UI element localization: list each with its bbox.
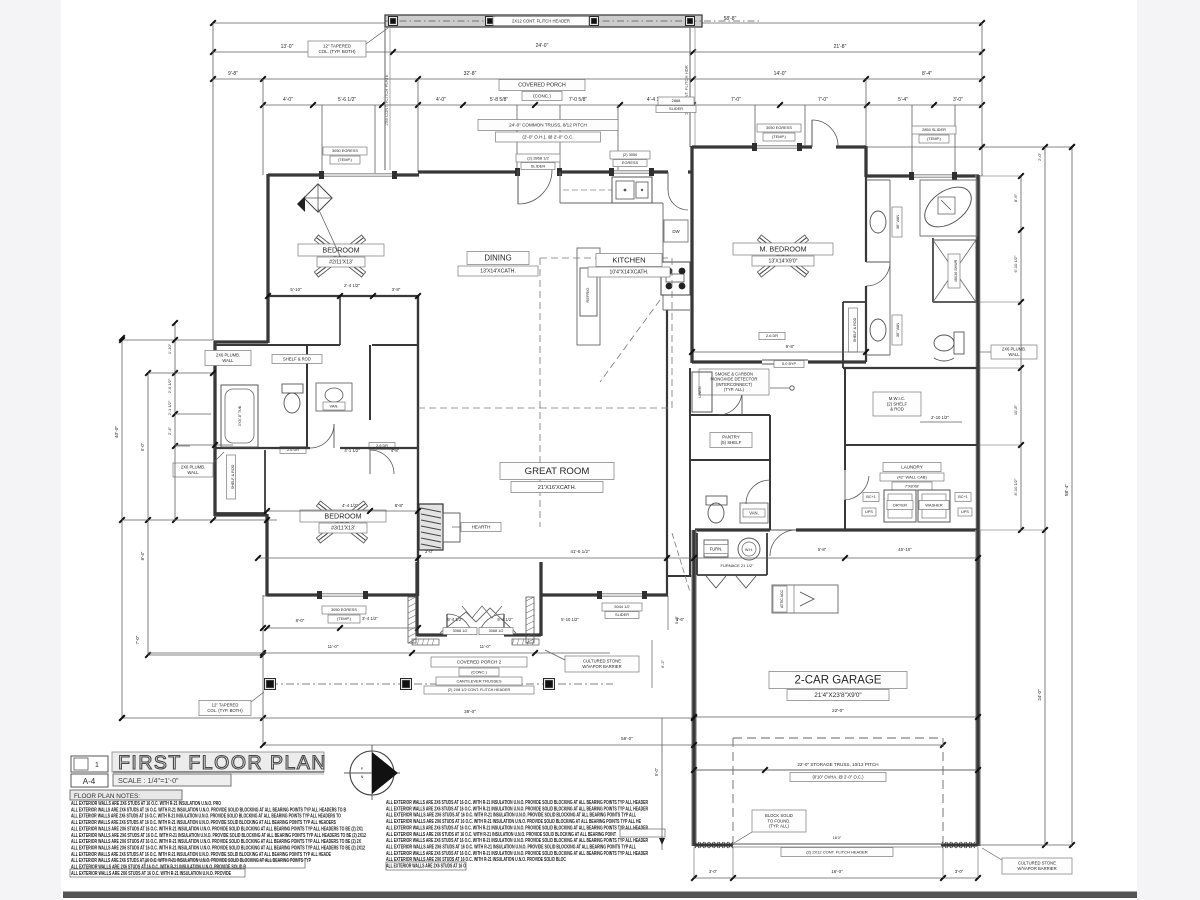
svg-text:8'-0": 8'-0" — [296, 618, 305, 623]
svg-text:39'-0": 39'-0" — [464, 709, 476, 714]
wall garage bottom right — [941, 844, 978, 847]
svg-text:ALL EXTERIOR WALLS ARE 2X6 STU: ALL EXTERIOR WALLS ARE 2X6 STUDS AT 16 O… — [386, 806, 648, 812]
powder vanity — [740, 503, 768, 523]
mbath toilet — [954, 332, 964, 354]
wall bath bottom / mwic top — [843, 367, 978, 369]
storage truss line — [694, 769, 978, 771]
dim ext x418 top — [417, 79, 419, 172]
svg-text:ALL EXTERIOR WALLS ARE 2X6 STU: ALL EXTERIOR WALLS ARE 2X6 STUDS AT 16 O — [386, 864, 466, 870]
laundry door swing — [844, 470, 846, 500]
svg-text:WALL: WALL — [187, 470, 199, 475]
pantry door swing — [718, 391, 742, 415]
bed3 closet label — [227, 455, 236, 499]
svg-text:8'-4": 8'-4" — [140, 551, 145, 560]
plumb wall label bath — [205, 351, 251, 366]
wall right exterior underlay — [976, 175, 981, 531]
bed3 door label — [369, 443, 395, 450]
front door leaf left — [446, 614, 448, 635]
porch2 label stack — [431, 657, 527, 667]
dim line top row4 — [263, 104, 982, 106]
wall garage left — [692, 530, 695, 846]
svg-text:4'-4 1/2": 4'-4 1/2" — [342, 503, 359, 508]
window mbath top — [912, 174, 955, 176]
wall garage right underlay — [975, 530, 981, 846]
dim 7ft bottom — [141, 596, 143, 718]
bed2 bottom dims — [268, 295, 418, 297]
porch left edge — [384, 28, 386, 170]
svg-text:5'-10": 5'-10" — [290, 287, 302, 292]
plumb wall label left — [173, 463, 213, 477]
svg-text:3068 1/2: 3068 1/2 — [453, 629, 468, 633]
svg-text:21'-8": 21'-8" — [834, 44, 847, 50]
attic access stair — [772, 585, 838, 613]
wall hall east — [689, 368, 691, 577]
svg-text:5'-4 1/2": 5'-4 1/2" — [497, 617, 513, 622]
mbath sink2 — [870, 319, 886, 341]
hall dashed diag — [672, 533, 690, 592]
wall kitchen top seg4 — [688, 170, 693, 173]
bed3 door swing — [370, 450, 394, 474]
svg-text:A-4: A-4 — [83, 777, 96, 786]
sheet number box — [71, 774, 108, 787]
wall mbed bottom seg1 — [692, 360, 762, 363]
svg-text:2'-0 1/2": 2'-0 1/2" — [167, 378, 172, 393]
dim ext vertical left of porch — [212, 23, 214, 340]
svg-text:CANTILEVER TRUSSES: CANTILEVER TRUSSES — [456, 678, 501, 683]
wall closet strip bottom2 — [372, 344, 418, 346]
left horiz y445 — [175, 444, 233, 446]
wall dining top seg1 — [418, 170, 518, 173]
cantilever zigzag — [462, 606, 502, 618]
wall bed3 closet bottom — [215, 512, 265, 514]
svg-text:ALL EXTERIOR WALLS ARE 2X6 STU: ALL EXTERIOR WALLS ARE 2X6 STUDS AT 16 O… — [71, 845, 365, 851]
svg-text:6'-2": 6'-2" — [660, 659, 665, 668]
svg-text:(CONC.): (CONC.) — [471, 669, 487, 674]
bedroom2 label — [298, 244, 384, 256]
mbath shower — [933, 240, 976, 302]
porch right edge — [689, 28, 691, 147]
wall bath bump top — [214, 340, 268, 343]
svg-text:11'-0": 11'-0" — [480, 644, 491, 649]
right dim x1021 — [1020, 176, 1022, 530]
svg-text:SCALE : 1/4"=1'-0": SCALE : 1/4"=1'-0" — [118, 776, 179, 785]
svg-text:ALL EXTERIOR WALLS ARE 2X6 STU: ALL EXTERIOR WALLS ARE 2X6 STUDS AT 16 O… — [71, 852, 331, 858]
kitchen porch door swing — [668, 190, 688, 210]
svg-text:ALL EXTERIOR WALLS ARE 2X6 STU: ALL EXTERIOR WALLS ARE 2X6 STUDS AT 16 O… — [71, 839, 361, 845]
smoke detector label — [699, 369, 769, 395]
porch post top-right — [686, 17, 695, 26]
svg-text:SHELF & ROD: SHELF & ROD — [231, 464, 235, 489]
wall mbath top seg2 — [955, 174, 979, 177]
kitchen counter left edge — [559, 172, 561, 203]
bedroom3 label — [300, 510, 386, 522]
wall mbed left — [690, 146, 693, 363]
wall bath bottom2 — [340, 447, 418, 449]
svg-text:ALL EXTERIOR WALLS ARE 2X6 STU: ALL EXTERIOR WALLS ARE 2X6 STUDS AT 16 O… — [71, 826, 363, 832]
wall laundry left2 — [844, 500, 846, 530]
hall door label — [759, 333, 785, 340]
wall porch recess right stub — [539, 562, 542, 636]
svg-text:BEDROOM: BEDROOM — [322, 245, 359, 254]
right gray margin — [1137, 0, 1200, 900]
hall bath vanity — [316, 383, 352, 411]
svg-text:ALL EXTERIOR WALLS ARE 2X6 STU: ALL EXTERIOR WALLS ARE 2X6 STUDS AT 16 O… — [71, 807, 346, 813]
common truss note2 — [496, 132, 601, 142]
svg-text:2868: 2868 — [672, 98, 681, 103]
wall mbath top seg1 — [866, 174, 912, 177]
dim ext x866 top — [865, 79, 867, 176]
dim ext x982 right — [981, 23, 983, 176]
garage header label — [781, 848, 893, 857]
mbed porch door swing — [811, 120, 813, 147]
wall laundry top — [845, 444, 978, 446]
dim ext x955 — [954, 105, 956, 174]
wall bedroom2 left — [266, 174, 269, 343]
dim ext x263 top — [262, 79, 264, 175]
svg-text:36" VAN: 36" VAN — [896, 323, 900, 337]
dim 40ft — [121, 338, 123, 718]
svg-text:7'X8'X8': 7'X8'X8' — [905, 483, 920, 488]
svg-text:(2) 2X8 1/2 CONT. FLITCH HEADE: (2) 2X8 1/2 CONT. FLITCH HEADER — [448, 688, 511, 692]
svg-text:ALL EXTERIOR WALLS ARE 2X6 STU: ALL EXTERIOR WALLS ARE 2X6 STUDS AT 16 O… — [386, 851, 648, 857]
interior long dim — [258, 557, 978, 559]
svg-text:COL. (TYP. BOTH): COL. (TYP. BOTH) — [207, 708, 243, 713]
svg-text:5'-0": 5'-0" — [654, 767, 659, 776]
svg-text:ALL EXTERIOR WALLS ARE 2X6 STU: ALL EXTERIOR WALLS ARE 2X6 STUDS AT 16 O… — [71, 858, 311, 864]
wall greatroom east — [666, 310, 668, 596]
svg-text:3'-8": 3'-8" — [392, 287, 401, 292]
covered porch label — [499, 80, 585, 91]
cultured stone label — [565, 656, 639, 672]
porch header label — [493, 17, 589, 26]
kitchen dishwasher — [664, 220, 688, 242]
right horiz y845 — [978, 844, 1072, 846]
svg-text:5'-4 1/2": 5'-4 1/2" — [447, 617, 463, 622]
left horiz y520 — [122, 519, 277, 521]
svg-text:FURN.: FURN. — [710, 546, 723, 551]
porch2 postline — [270, 683, 613, 685]
svg-text:3050 EGRESS: 3050 EGRESS — [331, 607, 357, 612]
svg-text:11'-0": 11'-0" — [328, 644, 339, 649]
wall bed2 bottom — [268, 295, 418, 297]
wall mcloset left — [842, 302, 844, 368]
porch2 post right — [544, 679, 555, 690]
dining label — [467, 252, 529, 265]
window bedroom3 south — [320, 593, 366, 595]
svg-text:ALL EXTERIOR WALLS ARE 2X6 STU: ALL EXTERIOR WALLS ARE 2X6 STUDS AT 16 O… — [71, 820, 336, 826]
garage door header — [733, 843, 941, 845]
tapered column label top — [308, 41, 366, 57]
wall garage right — [976, 530, 979, 846]
svg-text:FIRST FLOOR PLAN: FIRST FLOOR PLAN — [118, 752, 327, 774]
long dim 56 — [263, 744, 943, 746]
svg-text:6'-10 1/2": 6'-10 1/2" — [1013, 255, 1018, 272]
dim ext x755 — [754, 105, 756, 145]
svg-text:ALL EXTERIOR WALLS ARE 2X6 STU: ALL EXTERIOR WALLS ARE 2X6 STUDS AT 16 O… — [386, 832, 616, 838]
svg-text:SHELF & ROD: SHELF & ROD — [853, 317, 857, 342]
wall bath top — [215, 344, 268, 346]
plumb wall label right — [991, 345, 1037, 359]
garage dim 22 — [694, 716, 978, 718]
ceiling fan bedroom2 — [340, 256, 364, 274]
dim x175 — [174, 323, 176, 520]
svg-text:DRYER: DRYER — [893, 502, 907, 507]
svg-text:KITCHEN: KITCHEN — [612, 255, 645, 264]
svg-text:1: 1 — [95, 762, 99, 769]
svg-text:2X12 CONT. FLITCH HEADER: 2X12 CONT. FLITCH HEADER — [512, 18, 570, 23]
wall greatroom west — [417, 296, 419, 596]
svg-text:4'-0": 4'-0" — [436, 97, 446, 103]
scale box — [113, 774, 231, 786]
kitchen range — [661, 262, 690, 295]
svg-text:#3/11'X13': #3/11'X13' — [331, 526, 355, 532]
wall south greatroom seg — [541, 593, 600, 596]
svg-text:(TYP. ALL): (TYP. ALL) — [769, 824, 790, 829]
right horiz y368 — [978, 367, 1021, 369]
utility doors — [706, 576, 726, 588]
cathedral dashed diag — [600, 300, 660, 382]
dim line top row1 — [213, 22, 982, 24]
mwic label — [873, 392, 921, 416]
common truss note — [478, 120, 618, 131]
svg-text:ALL EXTERIOR WALLS ARE 2X6 STU: ALL EXTERIOR WALLS ARE 2X6 STUDS AT 16 O… — [71, 814, 341, 820]
right ext y147 — [866, 146, 1072, 148]
fireplace — [419, 504, 443, 550]
svg-text:(TEMP.): (TEMP.) — [337, 616, 352, 621]
cathedral dashed rect — [540, 257, 672, 259]
svg-text:58'-4": 58'-4" — [1064, 484, 1070, 497]
svg-text:24'-0": 24'-0" — [536, 43, 549, 49]
porch2 stone band bottomL — [412, 639, 439, 645]
block solid label — [752, 810, 806, 832]
right dim x1045 — [1044, 147, 1046, 845]
svg-text:W/VAPOR BARRIER: W/VAPOR BARRIER — [582, 664, 621, 669]
bath door swing — [310, 424, 334, 448]
svg-text:3'-0": 3'-0" — [425, 549, 434, 554]
mbath sink1 — [870, 211, 886, 233]
wall laundry left — [844, 445, 846, 470]
svg-text:2-6 DR: 2-6 DR — [766, 334, 778, 338]
wall south seg3 — [645, 593, 668, 596]
window mbed top — [755, 145, 800, 147]
tapered col label bottom — [199, 701, 251, 716]
hearth label — [461, 523, 501, 532]
dim ext x912 — [911, 105, 913, 174]
right horiz y530 — [978, 529, 1045, 531]
porch2 door labels — [443, 628, 477, 635]
laundry side box right — [955, 493, 971, 502]
svg-text:LAUNDRY: LAUNDRY — [901, 464, 922, 469]
mbath window labels — [912, 126, 956, 134]
svg-text:W.H.: W.H. — [745, 548, 753, 552]
bed3 bottom dim — [267, 627, 418, 629]
mbath tub — [918, 179, 979, 235]
svg-text:32'-8": 32'-8" — [464, 71, 477, 77]
svg-text:4'-8": 4'-8" — [391, 448, 400, 453]
svg-text:21'4"X23'8"X9'0": 21'4"X23'8"X9'0" — [814, 692, 861, 699]
closet divider bed2 — [339, 296, 341, 345]
wall bed3 closet right — [264, 450, 266, 515]
svg-text:COL. (TYP. BOTH): COL. (TYP. BOTH) — [319, 49, 357, 54]
mbath van label2 — [892, 315, 902, 345]
svg-text:7'-0": 7'-0" — [135, 635, 140, 644]
wall porch recess back — [417, 633, 447, 636]
north arrow — [350, 751, 394, 795]
porch2 stone left — [408, 597, 416, 643]
svg-text:5-0 BYP: 5-0 BYP — [782, 362, 797, 366]
svg-text:SLIDER: SLIDER — [615, 612, 629, 617]
porch header centerline — [385, 20, 760, 22]
garage label — [769, 672, 907, 689]
porch2 stone band bottomR — [512, 639, 539, 645]
svg-text:8'-6": 8'-6" — [1013, 193, 1018, 202]
svg-text:LINEN: LINEN — [698, 386, 702, 397]
wall garage bottom left — [694, 844, 733, 847]
water heater — [738, 538, 760, 560]
dim x148 — [147, 373, 149, 655]
svg-text:COVERED PORCH: COVERED PORCH — [518, 83, 566, 89]
storage truss dashed — [733, 737, 943, 739]
svg-text:5044 1/2: 5044 1/2 — [614, 604, 629, 609]
svg-text:2'-4": 2'-4" — [167, 426, 172, 435]
svg-text:SHELF & ROD: SHELF & ROD — [283, 356, 311, 361]
ceiling fan bedroom3 — [342, 522, 366, 540]
porch post top-left — [389, 17, 398, 26]
wall pantry bottom — [690, 459, 770, 461]
wall bath bottom — [215, 447, 310, 449]
garage bottom dims — [694, 877, 978, 879]
wall bath bump left — [213, 341, 216, 516]
svg-text:5'-8": 5'-8" — [818, 547, 827, 552]
svg-text:3'-0": 3'-0" — [953, 97, 963, 103]
mbath door swing — [866, 261, 890, 263]
wall bath divider1 — [306, 345, 308, 448]
wall step mbed-bath — [864, 146, 867, 177]
svg-text:REFRIG: REFRIG — [585, 287, 590, 302]
ceiling fan mbed — [783, 256, 807, 274]
svg-text:40'-0": 40'-0" — [114, 426, 120, 439]
hall bath toilet — [282, 384, 303, 393]
wall mbed bottom seg2 — [808, 360, 866, 363]
svg-text:EGRESS: EGRESS — [622, 160, 639, 165]
porch2 post mid — [401, 679, 412, 690]
wall mbed top seg2 — [800, 145, 812, 148]
hall door labels — [658, 97, 694, 105]
bed3 top dims — [267, 510, 418, 512]
svg-text:41'-6 1/2": 41'-6 1/2" — [570, 549, 590, 554]
svg-text:SLIDER: SLIDER — [531, 163, 546, 168]
wall bath bump bottom — [214, 513, 267, 516]
svg-text:(TEMP.): (TEMP.) — [772, 134, 787, 139]
bed2 window labels top — [323, 147, 367, 155]
kitchen window labels — [610, 151, 650, 159]
svg-text:36" VAN: 36" VAN — [896, 215, 900, 229]
wall mbed-mbath divider2 — [865, 286, 867, 362]
refrigerator — [580, 268, 597, 316]
svg-text:(2) SHELF: (2) SHELF — [887, 401, 908, 406]
svg-text:5'-8": 5'-8" — [674, 615, 679, 624]
svg-text:10'-8": 10'-8" — [1013, 404, 1018, 415]
linen closet — [692, 372, 712, 412]
garage entry swing — [770, 529, 796, 531]
window kitchen sink — [612, 170, 652, 172]
svg-text:2'-1 1/2": 2'-1 1/2" — [167, 400, 172, 415]
svg-text:VAN.: VAN. — [329, 403, 338, 408]
svg-text:1'-10": 1'-10" — [167, 343, 172, 354]
svg-text:3068 1/2: 3068 1/2 — [489, 629, 504, 633]
porch post top-mid-right — [590, 17, 599, 26]
garage bottom ext lines — [693, 847, 695, 878]
svg-text:(TYP. ALL): (TYP. ALL) — [724, 387, 745, 392]
furnace — [704, 540, 728, 557]
svg-text:14'-0": 14'-0" — [774, 71, 787, 77]
cultured stone label2 — [1002, 858, 1072, 874]
svg-text:16'0": 16'0" — [833, 836, 842, 840]
notes col1 boxed line — [145, 860, 305, 868]
great room label — [500, 463, 614, 480]
window jamb blobs — [319, 171, 324, 179]
wall house south right — [695, 528, 770, 531]
porch2 post left — [265, 679, 276, 690]
svg-text:ALL EXTERIOR WALLS ARE 2X6 STU: ALL EXTERIOR WALLS ARE 2X6 STUDS AT 16 O… — [386, 813, 636, 819]
svg-text:WALL: WALL — [222, 358, 234, 363]
svg-text:(CONC.): (CONC.) — [533, 93, 551, 98]
mbed closet bypass — [762, 359, 808, 361]
left gray margin — [0, 0, 61, 900]
porch header band — [385, 15, 702, 27]
right horiz y176 — [978, 175, 1021, 177]
wall dining-kitchen top seg2 — [560, 170, 612, 173]
svg-text:24'-0" COMMON TRUSS, 8/12 PITC: 24'-0" COMMON TRUSS, 8/12 PITCH — [509, 122, 587, 127]
pantry label — [710, 433, 752, 448]
svg-text:2'-4 1/2": 2'-4 1/2" — [344, 283, 361, 288]
wall hall nook — [667, 575, 692, 577]
dim line top row3 — [213, 78, 982, 80]
svg-text:WASHER: WASHER — [925, 502, 943, 507]
svg-text:ALL EXTERIOR WALLS ARE 2X6 STU: ALL EXTERIOR WALLS ARE 2X6 STUDS AT 16 O… — [386, 800, 648, 806]
svg-text:3'-4 1/2": 3'-4 1/2" — [362, 616, 379, 621]
hall dim 9-8 — [692, 351, 866, 353]
svg-text:7'-0 5/8": 7'-0 5/8" — [569, 97, 588, 103]
svg-text:16'-0": 16'-0" — [831, 869, 843, 874]
bed3 window labels — [322, 606, 366, 614]
utility closet walls — [696, 533, 698, 575]
svg-text:8'-4": 8'-4" — [922, 71, 932, 77]
wall closet strip bottom — [268, 344, 340, 346]
laundry side box left — [863, 493, 879, 502]
svg-text:VAN.: VAN. — [749, 510, 758, 515]
wall south bedroom3 seg2 — [366, 593, 418, 596]
svg-text:7'-0": 7'-0" — [731, 97, 741, 103]
dining patio door — [517, 170, 519, 204]
title sheet box — [71, 756, 108, 772]
svg-text:ALL EXTERIOR WALLS ARE 2X6 STU: ALL EXTERIOR WALLS ARE 2X6 STUDS AT 16 O… — [71, 871, 231, 877]
svg-text:3050 EGRESS: 3050 EGRESS — [766, 125, 792, 130]
right horiz y445 — [978, 444, 1021, 446]
hall bath tub — [221, 385, 258, 447]
svg-text:12" TAPERED: 12" TAPERED — [323, 44, 351, 49]
svg-text:M.W.I.C.: M.W.I.C. — [889, 396, 905, 401]
svg-text:8'-10 1/2": 8'-10 1/2" — [1013, 478, 1018, 495]
dim y653 — [148, 652, 610, 654]
svg-text:W/VAPOR BARRIER: W/VAPOR BARRIER — [1017, 866, 1056, 871]
wall mbath-wc divider — [932, 238, 934, 302]
svg-text:BC+1: BC+1 — [866, 495, 876, 499]
wall garage left underlay — [691, 530, 697, 846]
svg-text:2'-10 1/2": 2'-10 1/2" — [931, 415, 949, 420]
washer — [884, 490, 916, 522]
kitchen label — [596, 254, 662, 267]
